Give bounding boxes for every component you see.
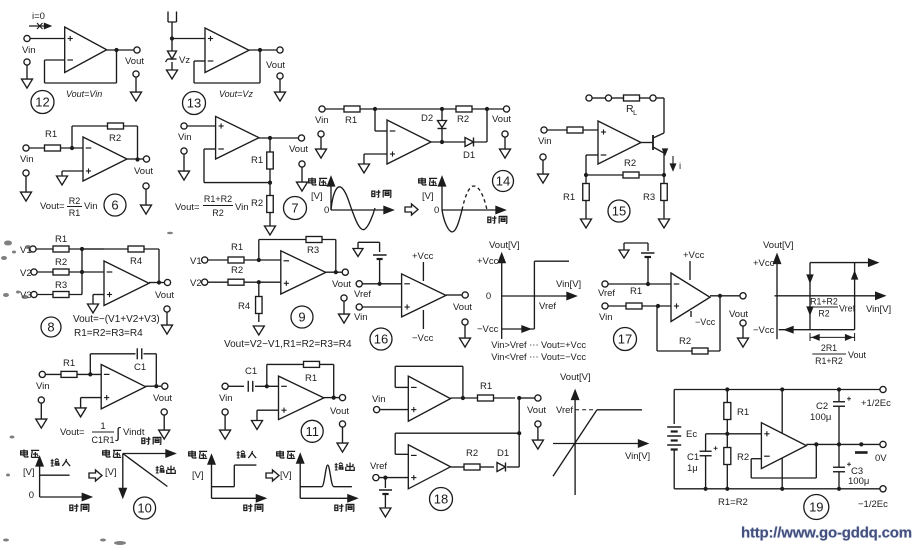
svg-text:100μ: 100μ bbox=[810, 412, 831, 423]
svg-text:Vref: Vref bbox=[839, 304, 856, 314]
svg-text:R1+R2: R1+R2 bbox=[204, 194, 232, 204]
svg-text:Vout: Vout bbox=[527, 405, 546, 416]
svg-text:V2: V2 bbox=[20, 268, 32, 279]
svg-text:V2: V2 bbox=[190, 278, 202, 289]
svg-text:Vin: Vin bbox=[22, 45, 36, 56]
svg-text:6: 6 bbox=[111, 198, 118, 213]
svg-text:R1: R1 bbox=[251, 155, 263, 166]
svg-text:R2: R2 bbox=[466, 448, 478, 459]
svg-text:R3: R3 bbox=[307, 245, 319, 256]
svg-text:D1: D1 bbox=[497, 448, 509, 459]
svg-text:Vout: Vout bbox=[289, 144, 308, 155]
svg-text:R2: R2 bbox=[818, 309, 829, 319]
svg-text:R1: R1 bbox=[55, 234, 67, 245]
svg-text:R2: R2 bbox=[624, 158, 636, 169]
svg-text:0: 0 bbox=[486, 291, 491, 302]
svg-text:+1/2Ec: +1/2Ec bbox=[861, 398, 891, 409]
svg-text:C1: C1 bbox=[687, 452, 699, 463]
svg-text:Vin: Vin bbox=[20, 154, 34, 165]
svg-text:i=0: i=0 bbox=[32, 11, 45, 22]
svg-text:R2: R2 bbox=[737, 452, 749, 463]
svg-text:Ec: Ec bbox=[686, 429, 697, 440]
svg-text:[V]: [V] bbox=[192, 470, 204, 481]
svg-text:Vin: Vin bbox=[372, 394, 386, 405]
svg-text:R2: R2 bbox=[679, 336, 691, 347]
svg-text:i: i bbox=[679, 161, 681, 172]
svg-text:Vout: Vout bbox=[332, 279, 351, 290]
svg-text:R1: R1 bbox=[480, 381, 492, 392]
svg-text:Vin>Vref ⋯ Vout=+Vcc: Vin>Vref ⋯ Vout=+Vcc bbox=[491, 340, 586, 350]
svg-text:R1: R1 bbox=[45, 129, 57, 140]
svg-text:16: 16 bbox=[374, 332, 388, 347]
svg-text:14: 14 bbox=[496, 174, 510, 189]
svg-text:Vout=V2−V1,R1=R2=R3=R4: Vout=V2−V1,R1=R2=R3=R4 bbox=[224, 339, 352, 350]
svg-text:R1: R1 bbox=[231, 242, 243, 253]
svg-text:Vout[V]: Vout[V] bbox=[763, 240, 794, 251]
svg-text:[V]: [V] bbox=[105, 467, 117, 478]
svg-text:Vout[V]: Vout[V] bbox=[560, 372, 591, 383]
svg-text:R2: R2 bbox=[69, 196, 81, 206]
svg-text:Vout=Vz: Vout=Vz bbox=[219, 89, 253, 99]
svg-text:R2: R2 bbox=[55, 257, 67, 268]
svg-text:[V]: [V] bbox=[280, 470, 292, 481]
svg-text:9: 9 bbox=[298, 310, 305, 325]
svg-text:15: 15 bbox=[612, 204, 626, 219]
svg-text:0V: 0V bbox=[875, 453, 887, 464]
svg-text:Vin: Vin bbox=[36, 381, 50, 392]
svg-text:Vout: Vout bbox=[266, 60, 285, 71]
svg-text:+Vcc: +Vcc bbox=[412, 251, 434, 262]
svg-text:1: 1 bbox=[100, 421, 105, 432]
svg-text:Vindt: Vindt bbox=[123, 427, 145, 438]
svg-text:V1: V1 bbox=[190, 256, 202, 267]
svg-text:R1: R1 bbox=[630, 286, 642, 297]
svg-text:1μ: 1μ bbox=[687, 463, 698, 474]
svg-text:Vref: Vref bbox=[370, 461, 387, 472]
svg-text:Vout: Vout bbox=[134, 166, 153, 177]
svg-text:Vout=Vin: Vout=Vin bbox=[66, 89, 102, 99]
svg-text:R3: R3 bbox=[643, 192, 655, 203]
svg-text:C1R1: C1R1 bbox=[91, 435, 114, 445]
svg-text:10: 10 bbox=[137, 501, 151, 516]
svg-text:18: 18 bbox=[434, 492, 448, 507]
svg-text:R1: R1 bbox=[737, 407, 749, 418]
svg-text:Vin: Vin bbox=[354, 312, 368, 323]
svg-text:R2: R2 bbox=[231, 265, 243, 276]
svg-text:R1+R2: R1+R2 bbox=[810, 297, 838, 307]
svg-text:R1: R1 bbox=[305, 373, 317, 384]
svg-text:Vout: Vout bbox=[729, 309, 748, 320]
svg-text:C1: C1 bbox=[134, 362, 146, 373]
svg-text:Vref: Vref bbox=[539, 301, 556, 312]
svg-text:Vref: Vref bbox=[556, 405, 573, 416]
svg-text:+Vcc: +Vcc bbox=[753, 258, 775, 269]
svg-text:+Vcc: +Vcc bbox=[477, 256, 499, 267]
svg-text:C2: C2 bbox=[816, 401, 828, 412]
svg-text:Vin: Vin bbox=[235, 202, 249, 213]
svg-text:R2: R2 bbox=[457, 114, 469, 125]
svg-text:Vin: Vin bbox=[219, 393, 233, 404]
svg-text:C1: C1 bbox=[245, 366, 257, 377]
svg-text:Vref: Vref bbox=[598, 288, 615, 299]
svg-text:Vout[V]: Vout[V] bbox=[489, 240, 520, 251]
svg-text:R1+R2: R1+R2 bbox=[815, 356, 843, 366]
svg-text:[V]: [V] bbox=[422, 191, 434, 202]
svg-text:−Vcc: −Vcc bbox=[477, 324, 499, 335]
svg-text:19: 19 bbox=[809, 500, 823, 515]
svg-text:R1: R1 bbox=[563, 192, 575, 203]
svg-text:Vin: Vin bbox=[599, 312, 613, 323]
svg-text:0: 0 bbox=[434, 205, 439, 216]
svg-text:Vin: Vin bbox=[538, 136, 552, 147]
svg-text:R1: R1 bbox=[63, 358, 75, 369]
svg-text:0: 0 bbox=[324, 205, 329, 216]
svg-text:−Vcc: −Vcc bbox=[695, 317, 716, 327]
svg-text:100μ: 100μ bbox=[848, 476, 869, 487]
svg-text:2R1: 2R1 bbox=[821, 343, 837, 353]
svg-text:R4: R4 bbox=[130, 256, 142, 267]
svg-text:Vin: Vin bbox=[315, 115, 329, 126]
svg-text:−1/2Ec: −1/2Ec bbox=[858, 499, 888, 510]
svg-text:Vz: Vz bbox=[179, 55, 190, 66]
svg-text:[V]: [V] bbox=[311, 191, 323, 202]
svg-text:Vin: Vin bbox=[178, 132, 192, 143]
svg-text:−Vcc: −Vcc bbox=[753, 325, 775, 336]
svg-text:0: 0 bbox=[29, 490, 34, 501]
svg-text:R1: R1 bbox=[69, 208, 81, 218]
svg-text:R2: R2 bbox=[251, 198, 263, 209]
svg-text:[V]: [V] bbox=[23, 467, 35, 478]
svg-text:11: 11 bbox=[305, 424, 319, 439]
svg-text:Vout=: Vout= bbox=[40, 201, 65, 212]
svg-text:Vout=−(V1+V2+V3): Vout=−(V1+V2+V3) bbox=[73, 314, 160, 325]
svg-text:Vin: Vin bbox=[84, 201, 98, 212]
svg-text:http://www.go-gddq.com: http://www.go-gddq.com bbox=[741, 525, 912, 542]
svg-text:L: L bbox=[633, 108, 637, 117]
svg-text:Vout: Vout bbox=[153, 393, 172, 404]
svg-text:R2: R2 bbox=[212, 208, 224, 218]
svg-text:Vout=: Vout= bbox=[175, 202, 200, 213]
svg-text:17: 17 bbox=[618, 332, 632, 347]
svg-text:R3: R3 bbox=[55, 280, 67, 291]
svg-text:Vout=: Vout= bbox=[60, 427, 85, 438]
svg-text:R4: R4 bbox=[238, 301, 250, 312]
svg-text:Vin[V]: Vin[V] bbox=[625, 451, 650, 462]
svg-text:−Vcc: −Vcc bbox=[412, 333, 434, 344]
svg-text:R2: R2 bbox=[109, 133, 121, 144]
svg-text:Vin[V]: Vin[V] bbox=[556, 279, 581, 290]
svg-text:R1=R2: R1=R2 bbox=[718, 497, 748, 508]
svg-text:D2: D2 bbox=[421, 113, 433, 124]
svg-text:Vout: Vout bbox=[453, 302, 472, 313]
svg-text:Vout: Vout bbox=[492, 114, 511, 125]
svg-text:Vin[V]: Vin[V] bbox=[866, 304, 891, 315]
svg-text:D1: D1 bbox=[463, 150, 475, 161]
svg-text:8: 8 bbox=[47, 320, 54, 335]
svg-text:+Vcc: +Vcc bbox=[683, 250, 705, 261]
svg-text:Vout: Vout bbox=[155, 290, 174, 301]
svg-text:Vout: Vout bbox=[125, 56, 144, 67]
svg-text:13: 13 bbox=[187, 96, 201, 111]
svg-text:12: 12 bbox=[35, 95, 49, 110]
svg-text:Vin<Vref ⋯ Vout=−Vcc: Vin<Vref ⋯ Vout=−Vcc bbox=[491, 352, 586, 362]
svg-text:7: 7 bbox=[291, 201, 298, 216]
svg-text:Vout: Vout bbox=[330, 406, 349, 417]
svg-text:Vout: Vout bbox=[848, 350, 867, 360]
svg-text:R1: R1 bbox=[345, 115, 357, 126]
svg-text:Vref: Vref bbox=[354, 289, 371, 300]
svg-text:R1=R2=R3=R4: R1=R2=R3=R4 bbox=[74, 328, 143, 339]
